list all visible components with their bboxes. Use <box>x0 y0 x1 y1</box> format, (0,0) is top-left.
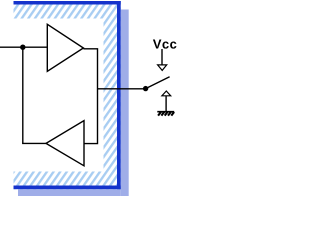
wire left feedback vertical <box>22 47 24 143</box>
wire to switch <box>98 88 146 90</box>
Vcc label <box>153 40 177 49</box>
enclosure border top <box>14 1 121 5</box>
switch S1 blade <box>146 77 170 89</box>
wire input left <box>0 46 47 48</box>
Vcc arrow <box>158 49 167 70</box>
buffer U2 <box>46 121 84 166</box>
enclosure shadow right <box>121 10 129 197</box>
wire bottom output horizontal <box>22 142 46 144</box>
enclosure border right <box>117 1 121 189</box>
enclosure border bottom <box>14 186 121 190</box>
enclosure shadow bottom <box>18 189 121 196</box>
ground symbol <box>157 112 174 116</box>
enclosure hatched band <box>14 1 121 189</box>
ground arrow <box>162 91 171 112</box>
buffer U1 <box>47 24 83 71</box>
node switch common dot <box>143 86 148 91</box>
wire U1 output <box>83 49 97 144</box>
node A junction dot <box>20 45 25 50</box>
